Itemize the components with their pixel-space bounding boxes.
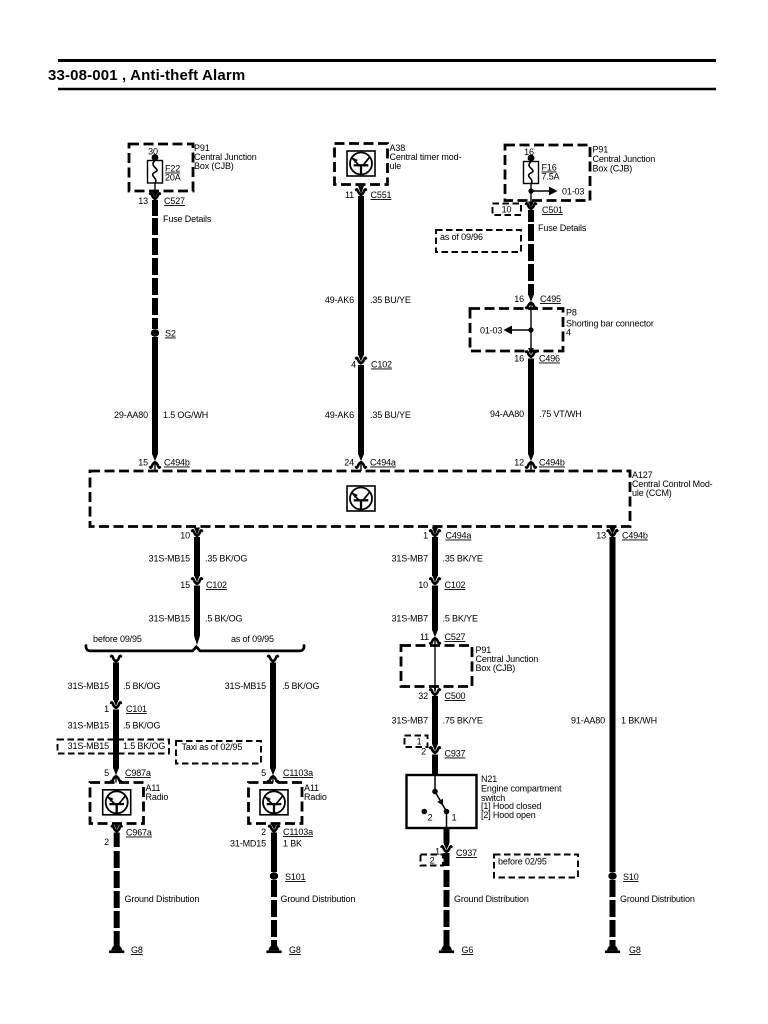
- switch N21 contacts: [434, 775, 436, 789]
- svg-text:.5 BK/OG: .5 BK/OG: [123, 681, 160, 691]
- svg-text:before 02/95: before 02/95: [498, 857, 547, 867]
- module A38 box: [335, 144, 388, 185]
- module A127 CCM box: [90, 471, 630, 527]
- connector C495 pin 16: [526, 295, 536, 309]
- svg-text:.5 BK/OG: .5 BK/OG: [123, 721, 160, 731]
- wire C101 to C987a: [113, 710, 119, 769]
- wire fuse to C501: [530, 184, 532, 207]
- wire through P91 middle: [434, 638, 436, 692]
- svg-text:01-03: 01-03: [480, 326, 502, 336]
- svg-text:31-MD15: 31-MD15: [230, 839, 266, 849]
- svg-text:.75 BK/YE: .75 BK/YE: [443, 716, 483, 726]
- svg-text:ule: ule: [390, 161, 402, 171]
- svg-text:20A: 20A: [165, 173, 181, 183]
- svg-text:G8: G8: [629, 945, 641, 955]
- svg-text:13: 13: [596, 531, 606, 541]
- wire split-right to C1103a: [270, 663, 276, 769]
- connector C967a: [112, 826, 122, 831]
- svg-text:C102: C102: [371, 360, 392, 370]
- svg-text:C494b: C494b: [164, 458, 190, 468]
- wire pin10 to C102: [194, 537, 200, 576]
- connector C102 pin 10: [430, 575, 440, 584]
- svg-text:10: 10: [180, 531, 190, 541]
- wire pin30 to fuse: [154, 157, 156, 161]
- svg-text:C1103a: C1103a: [283, 827, 313, 837]
- svg-text:G8: G8: [289, 945, 301, 955]
- svg-text:Shorting bar connector: Shorting bar connector: [566, 319, 654, 329]
- title rule top: [58, 59, 716, 62]
- svg-text:as of 09/95: as of 09/95: [231, 634, 274, 644]
- central junction box P91 (top right): [505, 145, 590, 201]
- wire pin1 to C102: [432, 537, 438, 576]
- central junction box P91 (top left): [129, 144, 193, 191]
- svg-text:C501: C501: [542, 205, 563, 215]
- svg-text:ule (CCM): ule (CCM): [632, 488, 672, 498]
- svg-text:Box (CJB): Box (CJB): [593, 164, 633, 174]
- svg-text:31S-MB15: 31S-MB15: [225, 681, 266, 691]
- svg-text:31S-MB7: 31S-MB7: [392, 716, 429, 726]
- fuse F22: [148, 161, 163, 184]
- svg-text:as of 09/96: as of 09/96: [440, 232, 483, 242]
- svg-text:P91: P91: [593, 145, 609, 155]
- svg-text:G8: G8: [131, 945, 143, 955]
- module A11 radio box (right): [249, 783, 303, 824]
- connector C500 pin 32: [430, 689, 440, 694]
- svg-text:16: 16: [514, 294, 524, 304]
- svg-text:S10: S10: [623, 872, 639, 882]
- svg-text:2: 2: [430, 856, 435, 866]
- version box Taxi as of 02/95: [176, 741, 261, 764]
- shorting bar connector P8 box: [470, 309, 563, 352]
- splice S101: [270, 872, 278, 879]
- connector C527 pin 11: [430, 630, 440, 644]
- svg-text:1: 1: [423, 531, 428, 541]
- svg-text:C102: C102: [206, 580, 227, 590]
- svg-text:31S-MB7: 31S-MB7: [392, 614, 429, 624]
- svg-text:.5 BK/OG: .5 BK/OG: [282, 681, 319, 691]
- ground G8 (1): [109, 945, 124, 953]
- svg-text:32: 32: [418, 691, 428, 701]
- svg-text:C496: C496: [539, 354, 560, 364]
- version box 31S-MB15 1.5 BK/OG: [58, 740, 170, 754]
- connector C551 pin 11: [356, 189, 366, 194]
- svg-text:before 09/95: before 09/95: [93, 634, 142, 644]
- svg-text:11: 11: [345, 190, 354, 200]
- svg-text:13: 13: [138, 196, 148, 206]
- svg-text:24: 24: [344, 458, 354, 468]
- svg-text:15: 15: [180, 580, 190, 590]
- split brace 09/95: [86, 646, 304, 651]
- node pin 16 dot: [528, 155, 535, 162]
- svg-text:11: 11: [420, 632, 429, 642]
- wire pin16 to fuse: [530, 158, 532, 162]
- wire C102 to C527: [432, 586, 438, 631]
- arrow to 01-03 (left): [512, 329, 531, 331]
- wire S2 to CCM: [152, 337, 158, 455]
- connector C1103a pin 2: [269, 826, 279, 831]
- svg-text:5: 5: [261, 768, 266, 778]
- svg-text:Ground Distribution: Ground Distribution: [454, 894, 529, 904]
- connector C494b CCM pin 12: [526, 454, 536, 468]
- svg-text:94-AA80: 94-AA80: [490, 409, 524, 419]
- svg-text:15: 15: [138, 458, 148, 468]
- svg-text:1.5 BK/OG: 1.5 BK/OG: [123, 741, 165, 751]
- splice S10: [608, 872, 616, 879]
- svg-text:49-AK6: 49-AK6: [325, 295, 354, 305]
- central junction box P91 (middle): [401, 646, 472, 687]
- svg-text:C500: C500: [445, 691, 466, 701]
- svg-text:16: 16: [514, 354, 524, 364]
- svg-text:N21: N21: [481, 774, 497, 784]
- ground G6: [439, 945, 454, 953]
- svg-text:C1103a: C1103a: [283, 768, 313, 778]
- svg-text:G6: G6: [462, 945, 474, 955]
- svg-text:1: 1: [104, 704, 109, 714]
- wire C527 to S2: [152, 200, 158, 216]
- svg-text:Radio: Radio: [146, 792, 169, 802]
- svg-text:Box (CJB): Box (CJB): [194, 161, 234, 171]
- connector split left: [111, 656, 121, 661]
- svg-text:1: 1: [452, 813, 457, 823]
- connector C494b CCM pin 15: [150, 454, 160, 468]
- svg-text:C937: C937: [456, 848, 477, 858]
- wire through P8: [530, 303, 532, 352]
- wire radio-right to S101: [271, 833, 277, 873]
- svg-text:.35 BU/YE: .35 BU/YE: [370, 410, 411, 420]
- svg-text:10: 10: [418, 580, 428, 590]
- wire C496 to CCM: [528, 359, 534, 455]
- svg-text:C494b: C494b: [539, 458, 565, 468]
- svg-text:01-03: 01-03: [562, 187, 584, 197]
- wire radio-left to ground: [114, 833, 120, 848]
- wire C551 to C102: [358, 196, 364, 355]
- svg-text:Ground Distribution: Ground Distribution: [281, 894, 356, 904]
- svg-text:Ground Distribution: Ground Distribution: [125, 894, 200, 904]
- svg-text:49-AK6: 49-AK6: [325, 410, 354, 420]
- connector C494a CCM pin 1: [430, 530, 440, 535]
- svg-text:.35 BK/OG: .35 BK/OG: [205, 554, 247, 564]
- svg-text:2: 2: [421, 747, 426, 757]
- ground G8 (2): [266, 945, 281, 953]
- svg-text:Taxi as of 02/95: Taxi as of 02/95: [182, 742, 243, 752]
- module A11 radio box (left): [90, 783, 144, 824]
- svg-text:C494b: C494b: [622, 531, 648, 541]
- svg-text:P8: P8: [566, 308, 577, 318]
- svg-text:C527: C527: [445, 632, 466, 642]
- svg-text:Fuse Details: Fuse Details: [163, 214, 212, 224]
- svg-text:31S-MB15: 31S-MB15: [68, 721, 109, 731]
- svg-text:S101: S101: [285, 872, 306, 882]
- connector C527 pin 13: [150, 193, 160, 198]
- svg-text:C527: C527: [164, 196, 185, 206]
- node P8 junction: [528, 327, 533, 332]
- wire pin13 to S10: [610, 537, 616, 872]
- svg-text:31S-MB15: 31S-MB15: [149, 614, 190, 624]
- node fuse output junction: [528, 188, 533, 193]
- svg-text:Radio: Radio: [304, 792, 327, 802]
- svg-text:.35 BU/YE: .35 BU/YE: [370, 295, 411, 305]
- connector C1103a pin 5: [268, 768, 278, 782]
- pin 2 box (C937 bottom): [421, 855, 444, 866]
- svg-text:[2] Hood open: [2] Hood open: [481, 810, 536, 820]
- svg-text:.75 VT/WH: .75 VT/WH: [539, 409, 582, 419]
- svg-text:4: 4: [566, 328, 571, 338]
- svg-text:Central Junction: Central Junction: [593, 154, 656, 164]
- connector CCM pin 10: [192, 530, 202, 535]
- svg-text:12: 12: [514, 458, 524, 468]
- connector split right: [268, 656, 278, 661]
- svg-text:C494a: C494a: [446, 531, 472, 541]
- svg-text:10: 10: [502, 205, 512, 215]
- connector C937 (top): [430, 744, 440, 753]
- connector C496 pin 16: [526, 348, 536, 357]
- svg-text:.5 BK/YE: .5 BK/YE: [443, 614, 478, 624]
- splice S2: [151, 329, 159, 336]
- fuse F16: [524, 162, 539, 184]
- node pin 30 dot: [152, 154, 159, 161]
- wire C102 to CCM: [358, 365, 364, 455]
- wire C102 to split: [194, 586, 200, 637]
- pin 10 box: [493, 204, 522, 216]
- wire fuse to C527: [154, 183, 156, 191]
- svg-text:C101: C101: [126, 704, 147, 714]
- module icon A38: [347, 151, 375, 176]
- wire S10 to ground: [610, 880, 616, 946]
- svg-text:1 BK: 1 BK: [283, 839, 302, 849]
- version note before 02/95: [494, 855, 578, 878]
- svg-text:31S-MB7: 31S-MB7: [392, 554, 429, 564]
- wire C501 to C495: [528, 210, 534, 222]
- arrow to 01-03 (right): [531, 190, 549, 192]
- connector C937 (bottom): [442, 846, 452, 851]
- svg-text:S2: S2: [165, 329, 176, 339]
- svg-text:C102: C102: [445, 580, 466, 590]
- svg-text:C967a: C967a: [126, 828, 152, 838]
- wire C937 to ground G6: [444, 853, 450, 866]
- switch N21 box: [407, 775, 477, 828]
- svg-text:1: 1: [417, 737, 422, 747]
- svg-text:2: 2: [104, 837, 109, 847]
- wire S101 to ground: [271, 880, 277, 946]
- svg-text:C937: C937: [445, 749, 466, 759]
- module icon radio left: [103, 790, 131, 815]
- connector C101 pin 1: [111, 699, 121, 708]
- module icon A127: [347, 486, 375, 511]
- svg-text:1.5 OG/WH: 1.5 OG/WH: [163, 410, 208, 420]
- wire split-left to C101: [113, 663, 119, 701]
- connector C102 pin 4: [356, 355, 366, 364]
- svg-text:C551: C551: [371, 190, 392, 200]
- svg-text:1 BK/WH: 1 BK/WH: [621, 716, 657, 726]
- connector C501: [526, 203, 536, 208]
- svg-text:91-AA80: 91-AA80: [571, 716, 605, 726]
- svg-text:2: 2: [261, 827, 266, 837]
- svg-text:2: 2: [428, 813, 433, 823]
- connector C987a pin 5: [111, 768, 121, 782]
- pin 1 box (C937 top): [405, 736, 428, 748]
- svg-text:31S-MB15: 31S-MB15: [68, 681, 109, 691]
- svg-text:Box (CJB): Box (CJB): [476, 663, 516, 673]
- svg-text:33-08-001 , Anti-theft Alarm: 33-08-001 , Anti-theft Alarm: [48, 67, 245, 84]
- module icon radio right: [260, 790, 288, 815]
- svg-text:31S-MB15: 31S-MB15: [68, 741, 109, 751]
- svg-text:Ground Distribution: Ground Distribution: [620, 894, 695, 904]
- wire A38 to C551: [360, 185, 362, 187]
- svg-text:Engine compartment: Engine compartment: [481, 784, 562, 794]
- svg-text:29-AA80: 29-AA80: [114, 410, 148, 420]
- svg-text:C987a: C987a: [125, 768, 151, 778]
- wire C500 to C937: [432, 696, 438, 744]
- wire C937 to N21: [432, 755, 438, 776]
- svg-text:.35 BK/YE: .35 BK/YE: [443, 554, 483, 564]
- connector C494a CCM pin 24: [356, 454, 366, 468]
- svg-text:C494a: C494a: [370, 458, 396, 468]
- svg-text:31S-MB15: 31S-MB15: [149, 554, 190, 564]
- svg-text:5: 5: [104, 768, 109, 778]
- svg-text:C495: C495: [540, 294, 561, 304]
- svg-text:.5 BK/OG: .5 BK/OG: [205, 614, 242, 624]
- connector C102 pin 15: [192, 575, 202, 584]
- svg-text:4: 4: [351, 360, 356, 370]
- connector C494b CCM pin 13: [608, 530, 618, 535]
- wire N21 to C937 bottom: [444, 829, 450, 843]
- version note as of 09/96: [436, 230, 521, 252]
- svg-text:Fuse Details: Fuse Details: [538, 223, 587, 233]
- ground G8 (4): [605, 945, 620, 953]
- title rule bottom: [58, 88, 716, 91]
- svg-text:7.5A: 7.5A: [542, 172, 560, 182]
